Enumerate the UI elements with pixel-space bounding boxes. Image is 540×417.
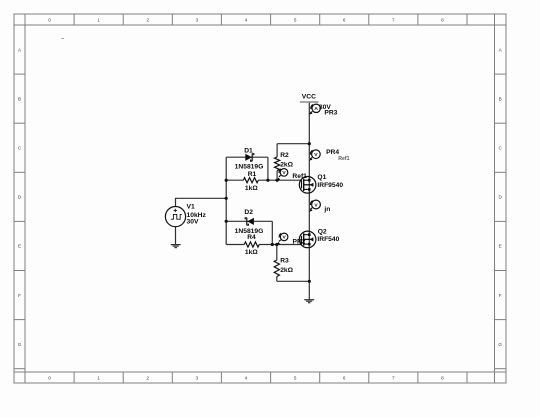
svg-text:Q1: Q1 — [317, 174, 326, 181]
svg-text:D1: D1 — [244, 147, 253, 154]
svg-text:1: 1 — [97, 17, 100, 22]
svg-text:R1: R1 — [248, 171, 257, 178]
svg-text:4: 4 — [245, 17, 248, 22]
svg-text:1kΩ: 1kΩ — [245, 249, 258, 256]
svg-text:jn: jn — [323, 206, 330, 213]
svg-text:G: G — [18, 342, 22, 347]
svg-text:PR2: PR2 — [293, 239, 306, 246]
svg-text:4: 4 — [245, 375, 248, 380]
svg-text:B: B — [18, 96, 21, 101]
svg-text:1: 1 — [97, 375, 100, 380]
svg-text:2kΩ: 2kΩ — [280, 267, 293, 274]
svg-text:R4: R4 — [247, 234, 256, 241]
svg-text:E: E — [18, 244, 21, 249]
svg-text:VCC: VCC — [302, 93, 316, 100]
svg-text:E: E — [499, 244, 502, 249]
svg-text:V1: V1 — [187, 203, 195, 210]
svg-text:0: 0 — [48, 17, 51, 22]
svg-text:G: G — [498, 342, 502, 347]
svg-text:1N5819G: 1N5819G — [235, 163, 264, 170]
svg-text:A: A — [314, 106, 318, 112]
svg-text:3: 3 — [196, 375, 199, 380]
svg-text:IRF9540: IRF9540 — [317, 182, 343, 189]
svg-text:6: 6 — [343, 375, 346, 380]
svg-text:8: 8 — [441, 17, 444, 22]
svg-text:F: F — [18, 293, 21, 298]
svg-text:0: 0 — [48, 375, 51, 380]
svg-text:6: 6 — [343, 17, 346, 22]
svg-text:1kΩ: 1kΩ — [245, 185, 258, 192]
svg-text:8: 8 — [441, 375, 444, 380]
svg-text:2: 2 — [147, 17, 150, 22]
svg-text:R2: R2 — [280, 152, 289, 159]
svg-text:PR4: PR4 — [326, 149, 339, 156]
svg-text:IRF540: IRF540 — [317, 236, 339, 243]
svg-text:PR3: PR3 — [324, 109, 337, 116]
svg-text:3: 3 — [196, 17, 199, 22]
svg-text:7: 7 — [392, 17, 395, 22]
svg-text:R3: R3 — [280, 258, 289, 265]
svg-text:D2: D2 — [244, 209, 253, 216]
svg-text:2: 2 — [147, 375, 150, 380]
svg-text:2kΩ: 2kΩ — [280, 162, 293, 169]
svg-text:7: 7 — [392, 375, 395, 380]
svg-text:B: B — [499, 96, 502, 101]
svg-text:30V: 30V — [187, 219, 199, 226]
svg-text:5: 5 — [294, 17, 297, 22]
svg-text:Q2: Q2 — [318, 228, 327, 235]
svg-text:Ref1: Ref1 — [338, 156, 349, 162]
svg-text:5: 5 — [294, 375, 297, 380]
svg-text:Ref1: Ref1 — [292, 173, 307, 180]
svg-text:F: F — [499, 293, 502, 298]
